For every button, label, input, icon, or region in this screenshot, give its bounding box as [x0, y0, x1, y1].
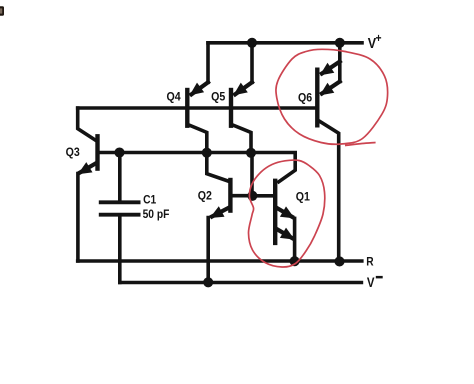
- wire C1 top lead: [118, 153, 122, 201]
- wire Q3 emitter to R rail: [76, 174, 80, 262]
- svg-text:Q2: Q2: [198, 190, 212, 203]
- svg-text:Q1: Q1: [296, 191, 311, 204]
- transistor Q2 emitter wire: [212, 208, 229, 217]
- transistor Q5 base bar: [229, 90, 233, 126]
- transistor Q5 emitter arrow (PNP): [233, 83, 248, 96]
- svg-text:50 pF: 50 pF: [143, 209, 170, 222]
- transistor Q1 emitter 1 wire: [277, 208, 292, 217]
- transistor Q4 base bar: [185, 90, 189, 126]
- wire Q2 emitter to V- rail: [206, 218, 210, 283]
- transistor Q4 emitter arrow (PNP): [190, 83, 205, 96]
- wire Q2 base: [230, 194, 252, 198]
- wire Q1 collector: [251, 153, 295, 182]
- label V+: [368, 32, 382, 51]
- svg-text:R: R: [366, 256, 373, 269]
- svg-text:Q3: Q3: [66, 146, 80, 159]
- transistor Q1 base bar: [273, 181, 277, 243]
- transistor Q6 emitter 1 arrow: [320, 63, 335, 76]
- transistor Q1 emitter 1 arrow: [280, 206, 295, 218]
- node V+ dot B (Q6 feed): [335, 38, 345, 48]
- transistor Q1 emitter 2 arrow: [280, 228, 295, 240]
- wire collector bus: [98, 151, 252, 155]
- wire Q2 collector: [207, 153, 229, 181]
- transistor Q6 emitter feed wire: [338, 43, 342, 82]
- annotation red circle around Q1: [248, 160, 324, 267]
- transistor Q1 emitter 2 wire: [277, 229, 292, 238]
- transistor Q6 emitter 2 arrow: [320, 83, 335, 96]
- node dot Q4/Q2 collectors: [202, 148, 212, 158]
- transistor Q6 base bar: [315, 70, 319, 126]
- svg-text:V: V: [367, 275, 375, 290]
- transistor Q2 base bar: [228, 180, 232, 211]
- node dot bases Q1/Q2: [247, 191, 257, 201]
- wire Q1 base: [252, 194, 273, 198]
- wire base link: [250, 153, 254, 196]
- transistor Q6 emitter 1 wire: [322, 62, 340, 74]
- transistor Q3 emitter wire: [80, 163, 96, 172]
- annotation red tail Q6 circle: [345, 143, 376, 146]
- node V+ dot A (Q5 feed): [247, 38, 257, 48]
- svg-text:C1: C1: [143, 194, 156, 207]
- wire V- rail: [120, 281, 362, 285]
- transistor Q5 emitter wire: [250, 43, 254, 83]
- wire R rail: [78, 259, 362, 263]
- label V-: [367, 275, 383, 290]
- node dot C1 top: [114, 147, 124, 157]
- capacitor C1 top plate: [101, 200, 139, 204]
- transistor Q4 emitter wire: [206, 43, 210, 83]
- node dot Q6 collector / R: [334, 256, 344, 266]
- transistor Q3 emitter arrow (NPN): [78, 162, 93, 174]
- capacitor C1 bottom plate: [101, 213, 139, 217]
- node dot Q2 emitter / V-: [203, 277, 213, 287]
- transistor Q2 emitter arrow (NPN): [210, 206, 225, 218]
- wire Q3 collector: [78, 108, 96, 141]
- wire Q5 collector: [233, 125, 251, 153]
- svg-text:Q6: Q6: [298, 92, 312, 105]
- node dot Q1 emitter / R: [290, 256, 300, 266]
- svg-text:Q5: Q5: [211, 91, 226, 104]
- wire base bus: [78, 106, 318, 110]
- transistor Q6 emitter 2 wire: [322, 82, 340, 94]
- node dot Q5/Q1 collectors: [246, 148, 256, 158]
- svg-text:Q4: Q4: [167, 91, 182, 104]
- wire C1 bottom lead to V- rail: [118, 217, 122, 283]
- wire Q4 collector: [189, 125, 207, 153]
- wire Q1 emitters to R rail: [293, 218, 297, 261]
- wire Q6 collector: [319, 121, 339, 261]
- svg-text:+: +: [376, 32, 382, 45]
- transistor Q3 base bar: [95, 136, 99, 168]
- partial glyph at left edge: [0, 6, 4, 16]
- wire V+ rail: [208, 41, 362, 45]
- annotation red circle around Q6: [276, 49, 388, 144]
